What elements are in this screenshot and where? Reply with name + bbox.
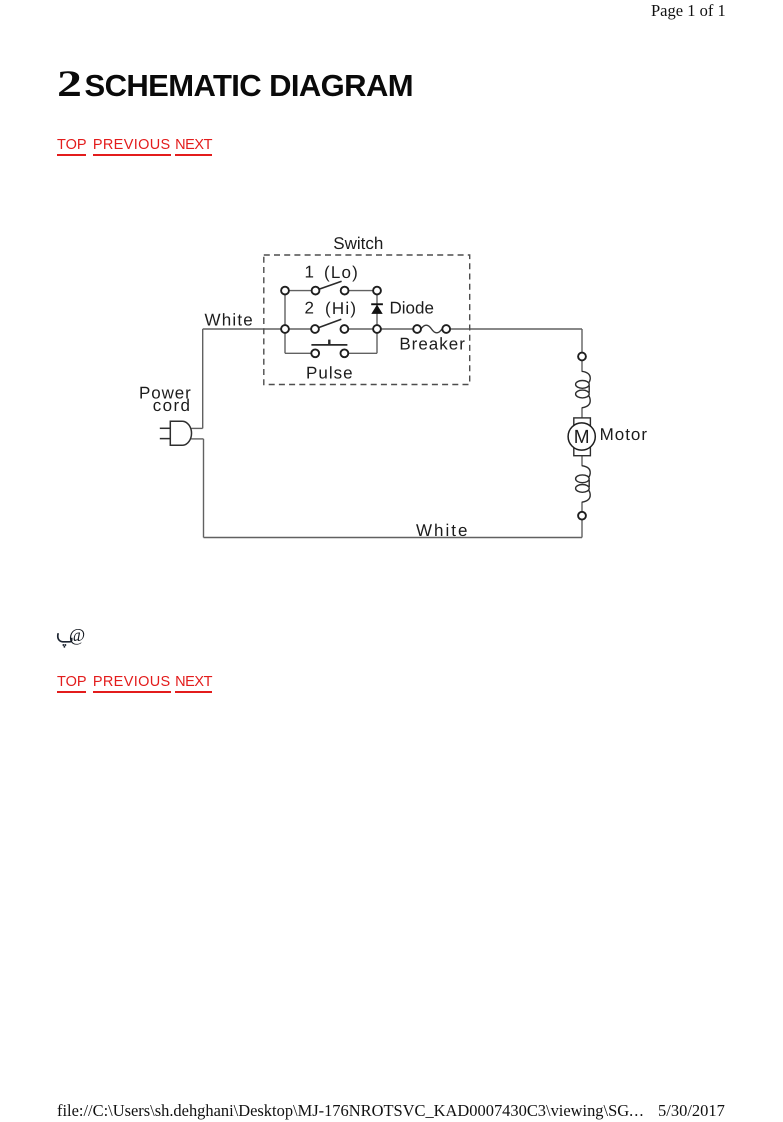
links row 1 [57,137,212,153]
wire: left drop from main line to plug [202,329,204,428]
wire: coil to motor [581,408,583,418]
svg-text:M: M [574,427,590,448]
wire: circle to bottom line [581,520,583,538]
wire: row1 (Lo) right segment [345,290,377,292]
Arabic peh glyph [58,633,72,642]
motor lower coil [576,466,591,503]
svg-text:Breaker: Breaker [399,334,466,353]
wire: main line between Hi switch and breaker [344,328,413,330]
svg-text:Diode: Diode [389,298,433,317]
wire: plug upper lead [191,427,202,429]
svg-text:Switch: Switch [333,234,383,253]
svg-text:Pulse: Pulse [306,364,354,383]
svg-text:White: White [416,521,469,540]
node: motor branch terminals [578,353,586,361]
wire: left vertical inside switch box [284,291,286,354]
schematic text labels [139,234,648,540]
switch blade row 2 [319,319,342,327]
wire: right vertical, circle to coil [581,360,583,371]
wire: lower coil to circle [581,502,583,512]
node: main row terminals [281,325,289,333]
stray characters "پ@" [56,627,92,656]
wire: main line from breaker to right corner [450,328,582,330]
wire: pulse row left [285,352,311,354]
motor upper coil [576,371,591,408]
pulse pushbutton bar [311,344,347,346]
wire: motor to lower coil [581,456,583,466]
page header "Page 1 of 1" [651,1,726,21]
svg-text:1: 1 [305,262,314,281]
wire: right vertical top [581,329,583,353]
svg-text:(Hi): (Hi) [325,299,357,318]
power cord plug [160,421,192,445]
wire: left vertical to bottom line [203,439,205,538]
node: breaker terminals [413,325,421,333]
wire: pulse row right [348,352,377,354]
wire: plug lower lead [191,438,203,440]
node: row1 terminals [281,287,289,295]
wire: bottom line (White) [204,537,583,539]
svg-text:White: White [205,310,254,329]
switch dashed box [264,255,470,385]
page footer [57,1101,644,1121]
svg-text:cord: cord [153,396,192,415]
svg-text:Motor: Motor [600,425,648,444]
node: pulse terminals [311,349,319,357]
heading: 2 SCHEMATIC DIAGRAM [57,63,413,106]
motor M1 body [568,418,595,456]
junction circles (terminals) [281,287,586,520]
pulse pushbutton stem [328,340,330,345]
svg-text:2: 2 [305,299,314,318]
wire: row1 (Lo) left segment [285,290,316,292]
links row 2 [57,674,212,690]
wire: main top line left segment (White) [203,328,315,330]
wire: diode vertical [376,291,378,354]
breaker wavy element [421,325,442,333]
switch blade row 1 [319,281,342,289]
svg-text:(Lo): (Lo) [324,263,359,282]
diode D1 [371,303,383,314]
